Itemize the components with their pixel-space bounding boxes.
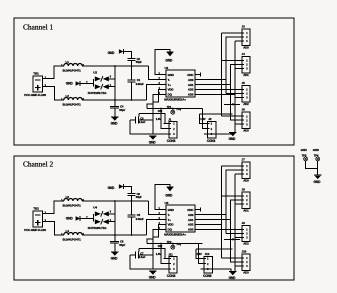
wire <box>114 66 116 100</box>
capacitor C4 <box>110 100 125 117</box>
svg-text:1: 1 <box>246 60 248 63</box>
wire VDD link <box>200 113 233 115</box>
test point TP4 <box>313 148 320 161</box>
svg-text:CON3: CON3 <box>203 274 212 278</box>
wire VDD link <box>196 248 232 250</box>
wire rail <box>226 37 242 120</box>
svg-text:GND: GND <box>313 148 319 152</box>
svg-text:3: 3 <box>173 268 175 271</box>
svg-text:DNC: DNC <box>187 208 194 212</box>
wire <box>80 83 93 85</box>
svg-text:NUP2105LT1G: NUP2105LT1G <box>88 226 107 230</box>
svg-text:GND: GND <box>229 276 237 280</box>
wire <box>109 78 115 80</box>
svg-text:2: 2 <box>246 199 248 202</box>
svg-text:AD2: AD2 <box>243 102 249 106</box>
wire <box>235 203 242 205</box>
svg-text:C1: C1 <box>137 78 141 82</box>
wire <box>222 32 243 34</box>
wire <box>123 52 131 59</box>
wire <box>200 114 208 123</box>
svg-text:GND: GND <box>168 73 174 77</box>
IC U1 MAX31850ESA+ <box>158 66 200 102</box>
svg-text:AD0: AD0 <box>243 178 249 182</box>
svg-text:1.8V: 1.8V <box>197 252 202 256</box>
terminal block TB1 <box>24 71 46 97</box>
svg-text:3: 3 <box>246 68 248 71</box>
svg-text:GND: GND <box>108 186 116 190</box>
svg-text:1: 1 <box>207 258 209 261</box>
connector J2 <box>200 117 216 143</box>
capacitor C6 <box>128 192 143 199</box>
svg-text:GND: GND <box>149 141 157 145</box>
connector J3 <box>237 25 251 50</box>
svg-text:T+: T+ <box>168 218 172 222</box>
capacitor C3 <box>130 113 153 124</box>
schematic Channel 2 <box>14 156 294 280</box>
svg-text:GND: GND <box>111 257 119 261</box>
capacitor C1 <box>128 66 145 100</box>
wire AD1 <box>201 200 243 220</box>
svg-text:PCC-SMP-K-100: PCC-SMP-K-100 <box>24 93 46 97</box>
wire <box>226 36 242 38</box>
svg-text:2: 2 <box>246 119 248 122</box>
svg-text:T+: T+ <box>168 83 172 87</box>
wire DQ to header <box>161 109 169 129</box>
wire <box>131 195 133 201</box>
ground <box>111 117 119 126</box>
wire <box>130 255 169 269</box>
ground above IC <box>155 184 174 209</box>
capacitor C5 <box>128 201 145 235</box>
svg-text:DNC: DNC <box>187 73 194 77</box>
connector J5 <box>237 81 251 106</box>
diode D1 to GND <box>66 81 88 86</box>
svg-text:1.8V: 1.8V <box>156 117 161 121</box>
svg-text:DQ: DQ <box>158 109 163 113</box>
svg-text:TP1: TP1 <box>167 105 172 109</box>
svg-text:AD1: AD1 <box>243 73 249 77</box>
wire <box>109 213 115 215</box>
svg-text:L4: L4 <box>66 229 70 233</box>
wire <box>222 165 243 167</box>
svg-text:1: 1 <box>246 195 248 198</box>
diode D2 to GND <box>108 49 124 55</box>
svg-text:AD2: AD2 <box>188 88 194 92</box>
svg-text:1: 1 <box>173 258 175 261</box>
svg-text:2: 2 <box>173 263 175 266</box>
ground above IC <box>155 49 174 74</box>
wire <box>43 201 65 214</box>
no-connect DNC pin <box>200 73 202 77</box>
inductor L1 <box>61 60 84 72</box>
ground <box>229 132 237 141</box>
svg-text:L3: L3 <box>66 195 70 199</box>
test point TP3 <box>301 148 308 161</box>
wire <box>235 68 242 70</box>
svg-text:1.8V: 1.8V <box>156 252 161 256</box>
svg-text:3: 3 <box>110 76 112 79</box>
svg-text:DQ: DQ <box>177 107 182 111</box>
svg-text:GND: GND <box>314 180 322 184</box>
svg-text:GND: GND <box>168 208 174 212</box>
svg-text:33pF: 33pF <box>136 60 142 64</box>
capacitor C2 <box>128 57 143 64</box>
ground <box>314 175 322 184</box>
svg-text:T-: T- <box>168 213 171 217</box>
svg-text:2: 2 <box>246 36 248 39</box>
wire <box>123 187 131 194</box>
svg-text:GND: GND <box>301 148 307 152</box>
test point TP1 <box>158 105 182 114</box>
svg-text:AD3: AD3 <box>243 129 249 133</box>
wire <box>204 132 231 134</box>
svg-text:AD0: AD0 <box>243 45 249 49</box>
wire <box>224 103 240 105</box>
wire <box>317 161 319 175</box>
wire <box>196 249 204 258</box>
svg-text:2: 2 <box>246 169 248 172</box>
svg-text:AD2: AD2 <box>188 223 194 227</box>
svg-text:1: 1 <box>246 257 248 260</box>
svg-text:1: 1 <box>246 89 248 92</box>
svg-text:AD2: AD2 <box>243 242 249 246</box>
wire <box>235 236 242 238</box>
ground <box>111 252 119 261</box>
svg-text:GND: GND <box>229 137 237 141</box>
svg-text:BLM41PG471: BLM41PG471 <box>63 204 82 208</box>
wire VDD rail <box>221 33 223 116</box>
svg-text:U4: U4 <box>93 206 97 210</box>
wire <box>226 232 242 234</box>
wire <box>109 221 115 223</box>
svg-text:CON3: CON3 <box>207 139 216 143</box>
svg-text:J2: J2 <box>208 117 212 121</box>
svg-text:J4: J4 <box>242 52 246 56</box>
wire <box>222 89 243 91</box>
svg-text:AD1: AD1 <box>188 218 194 222</box>
wire T+ input <box>147 220 167 235</box>
svg-text:C4: C4 <box>120 104 124 108</box>
svg-text:33pF: 33pF <box>119 108 125 112</box>
ground <box>149 136 157 145</box>
ground <box>149 271 157 280</box>
svg-text:AD0: AD0 <box>188 78 194 82</box>
TVS diode array U4 <box>88 206 112 231</box>
wire <box>226 169 242 171</box>
wire <box>152 113 154 134</box>
svg-text:C5: C5 <box>137 213 141 217</box>
svg-text:J7: J7 <box>242 158 246 162</box>
svg-text:J6: J6 <box>242 108 246 112</box>
svg-text:3: 3 <box>246 236 248 239</box>
capacitor C7 <box>130 248 153 259</box>
wire <box>226 93 242 95</box>
svg-text:3: 3 <box>246 203 248 206</box>
svg-text:VDD: VDD <box>168 223 174 227</box>
svg-text:0.1uF: 0.1uF <box>139 120 146 124</box>
svg-text:3: 3 <box>246 97 248 100</box>
wire AD3 <box>201 229 236 262</box>
svg-text:AD3: AD3 <box>188 228 194 232</box>
svg-text:1: 1 <box>246 165 248 168</box>
svg-text:DQ: DQ <box>158 244 163 248</box>
svg-text:GND: GND <box>108 51 116 55</box>
wire rail <box>226 170 242 262</box>
svg-text:3: 3 <box>173 133 175 136</box>
connector J7 <box>237 158 251 183</box>
wire GND rail <box>234 174 236 271</box>
svg-text:3: 3 <box>110 211 112 214</box>
svg-text:T-: T- <box>168 78 171 82</box>
wire <box>235 40 242 42</box>
wire <box>200 269 231 271</box>
connector J10 <box>237 249 251 274</box>
svg-text:1: 1 <box>173 123 175 126</box>
svg-text:AD0: AD0 <box>188 213 194 217</box>
wire <box>222 115 243 117</box>
svg-text:BLM41PG471: BLM41PG471 <box>63 69 82 73</box>
svg-text:1: 1 <box>246 115 248 118</box>
wire <box>43 222 65 236</box>
svg-text:L2: L2 <box>66 94 70 98</box>
svg-text:J3: J3 <box>242 25 246 29</box>
svg-text:GND: GND <box>111 122 119 126</box>
wire VDD <box>153 90 161 114</box>
svg-text:2: 2 <box>246 261 248 264</box>
svg-text:2: 2 <box>246 232 248 235</box>
wire AD2 <box>201 225 222 234</box>
svg-text:TB1: TB1 <box>33 71 39 75</box>
wire VDD to header <box>139 248 169 258</box>
svg-text:C8: C8 <box>120 239 124 243</box>
svg-text:3: 3 <box>246 173 248 176</box>
wire <box>235 173 242 175</box>
wire AD2 <box>201 90 222 94</box>
wire T- input <box>149 201 167 215</box>
wire <box>222 195 243 197</box>
connector J1 <box>164 117 178 142</box>
ground <box>229 271 237 280</box>
connector J12 <box>197 252 213 278</box>
svg-text:AD1: AD1 <box>243 208 249 212</box>
wire AD1 <box>201 65 243 85</box>
wire <box>131 60 133 66</box>
wire <box>222 228 243 230</box>
wire <box>82 200 149 202</box>
svg-text:J9: J9 <box>242 221 246 225</box>
capacitor C8 <box>110 235 125 252</box>
diode D3 to GND <box>66 216 88 221</box>
svg-text:1: 1 <box>246 32 248 35</box>
wire VDD <box>153 225 161 249</box>
wire AD0 <box>201 37 243 80</box>
svg-text:0.1uF: 0.1uF <box>139 255 146 259</box>
connector J8 <box>237 188 251 213</box>
svg-text:GND: GND <box>165 59 173 63</box>
wire <box>114 201 116 235</box>
svg-text:J10: J10 <box>242 249 247 253</box>
wire T+ input <box>147 85 167 100</box>
svg-text:CON3: CON3 <box>167 139 176 143</box>
wire <box>43 87 65 101</box>
inductor L2 <box>61 94 84 106</box>
wire DQ <box>147 229 161 243</box>
wire <box>199 244 204 264</box>
svg-text:J1: J1 <box>168 117 172 121</box>
wire VDD rail <box>221 166 223 258</box>
svg-text:33pF: 33pF <box>119 243 125 247</box>
svg-text:J5: J5 <box>242 81 246 85</box>
inductor L3 <box>61 195 84 207</box>
svg-text:3: 3 <box>246 40 248 43</box>
terminal block TB2 <box>24 206 46 232</box>
wire <box>306 161 318 169</box>
wire <box>80 218 93 220</box>
wire DQ net <box>147 108 202 110</box>
svg-text:J8: J8 <box>242 188 246 192</box>
svg-text:VDD: VDD <box>168 88 174 92</box>
svg-text:0.01uF: 0.01uF <box>136 82 144 86</box>
svg-text:PCC-SMP-K-100: PCC-SMP-K-100 <box>24 228 46 232</box>
svg-text:2: 2 <box>207 263 209 266</box>
wire DQ <box>147 94 161 108</box>
wire GND rail <box>234 41 236 132</box>
svg-text:CON3: CON3 <box>167 274 176 278</box>
wire <box>152 248 154 268</box>
wire <box>222 60 243 62</box>
wire <box>235 97 242 99</box>
wire <box>82 65 149 67</box>
wire <box>222 257 243 259</box>
svg-text:2: 2 <box>173 128 175 131</box>
test point TP2 <box>158 240 182 249</box>
schematic Channel 1 <box>14 18 294 145</box>
svg-text:GND: GND <box>66 217 74 221</box>
svg-text:BLM41PG471: BLM41PG471 <box>63 103 82 107</box>
wire VDD to header <box>139 113 169 123</box>
connector J4 <box>237 52 251 77</box>
svg-text:U2: U2 <box>93 71 97 75</box>
TVS diode array U2 <box>88 71 112 96</box>
wire <box>224 238 240 240</box>
wire DQ to header <box>161 244 169 264</box>
wire <box>202 109 207 129</box>
wire <box>82 234 147 236</box>
no-connect DNC pin <box>200 208 202 212</box>
connector J11 <box>164 252 178 278</box>
svg-text:MAX31850ESA+: MAX31850ESA+ <box>164 98 186 102</box>
svg-text:AD1: AD1 <box>188 83 194 87</box>
svg-text:33pF: 33pF <box>136 195 142 199</box>
svg-text:J11: J11 <box>168 252 173 256</box>
svg-text:2: 2 <box>211 128 213 131</box>
svg-text:U1: U1 <box>165 66 169 70</box>
svg-text:GND: GND <box>66 82 74 86</box>
svg-text:GND: GND <box>149 276 157 280</box>
wire AD3 <box>201 94 236 120</box>
svg-text:U3: U3 <box>165 201 169 205</box>
svg-text:3: 3 <box>246 265 248 268</box>
svg-text:TB2: TB2 <box>33 206 39 210</box>
svg-text:BLM41PG471: BLM41PG471 <box>63 238 82 242</box>
svg-text:MAX31850ESA+: MAX31850ESA+ <box>164 233 186 237</box>
svg-text:2: 2 <box>246 64 248 67</box>
diode D4 to GND <box>108 184 124 190</box>
svg-text:C6: C6 <box>137 192 141 196</box>
svg-text:0.01uF: 0.01uF <box>136 217 144 221</box>
wire DQ net <box>147 243 202 245</box>
svg-text:C2: C2 <box>137 57 141 61</box>
svg-text:DQ: DQ <box>177 242 182 246</box>
svg-text:1: 1 <box>211 123 213 126</box>
svg-text:NUP2105LT1G: NUP2105LT1G <box>88 91 107 95</box>
svg-text:1: 1 <box>246 228 248 231</box>
svg-text:AD3: AD3 <box>188 93 194 97</box>
connector J9 <box>237 221 251 246</box>
svg-text:DQ: DQ <box>168 93 173 97</box>
svg-text:TP2: TP2 <box>167 240 172 244</box>
svg-text:L1: L1 <box>66 60 70 64</box>
wire <box>130 120 169 134</box>
svg-text:Channel 2: Channel 2 <box>23 160 53 169</box>
svg-text:GND: GND <box>165 194 173 198</box>
svg-text:DQ: DQ <box>168 228 173 232</box>
wire <box>235 123 242 125</box>
wire <box>43 66 65 79</box>
connector J6 <box>237 108 251 133</box>
wire <box>82 99 147 101</box>
wire <box>109 86 115 88</box>
IC U3 MAX31850ESA+ <box>158 201 200 237</box>
svg-text:1.8V: 1.8V <box>200 117 205 121</box>
svg-text:3: 3 <box>246 123 248 126</box>
inductor L4 <box>61 229 84 241</box>
wire T- input <box>149 66 167 80</box>
wire AD0 <box>201 170 243 215</box>
svg-text:J12: J12 <box>205 252 210 256</box>
svg-text:Channel 1: Channel 1 <box>23 23 53 32</box>
svg-text:AD3: AD3 <box>243 270 249 274</box>
svg-text:2: 2 <box>246 93 248 96</box>
wire <box>235 265 242 267</box>
